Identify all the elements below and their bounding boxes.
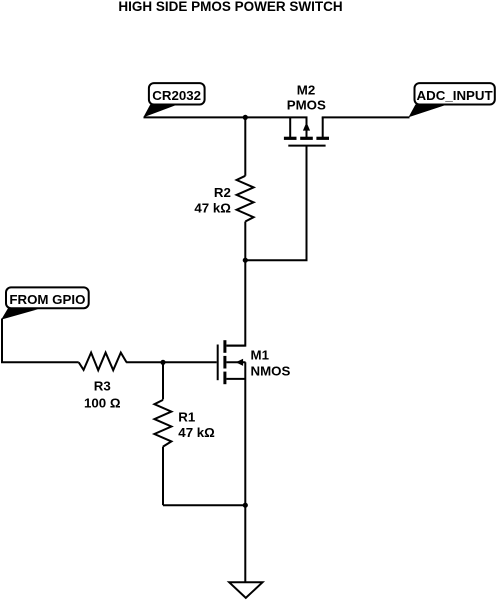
ground: [229, 582, 262, 598]
gate line: [288, 145, 325, 147]
drain line: [226, 345, 245, 347]
wire node B to M1 drain: [227, 260, 246, 345]
channel bars: [284, 137, 297, 140]
node D junction dot: [243, 503, 248, 508]
svg-text:R3: R3: [94, 378, 111, 393]
source line: [226, 378, 245, 380]
source/body vertical: [244, 362, 246, 505]
svg-text:47 kΩ: 47 kΩ: [194, 201, 231, 216]
svg-text:ADC_INPUT: ADC_INPUT: [417, 88, 493, 103]
svg-text:HIGH SIDE PMOS POWER SWITCH: HIGH SIDE PMOS POWER SWITCH: [118, 0, 342, 14]
body stub with arrow: [306, 117, 308, 138]
node A junction dot: [243, 115, 248, 120]
wire R3 to M1 gate: [126, 361, 217, 363]
wire R1 top lead: [162, 362, 164, 399]
svg-text:NMOS: NMOS: [251, 363, 291, 378]
wire R2 top lead: [244, 117, 246, 175]
channel bars: [223, 340, 226, 353]
net flag CR2032: [143, 83, 204, 117]
svg-text:M2: M2: [297, 83, 315, 98]
wire R2 bottom lead: [244, 222, 246, 261]
svg-text:PMOS: PMOS: [287, 98, 326, 113]
source stub: [289, 117, 291, 138]
wire M2 drain to ADC_INPUT: [322, 116, 410, 118]
resistor R1: [154, 362, 215, 505]
resistor R2: [194, 117, 253, 260]
wire M2 gate to node B: [245, 146, 306, 261]
wire R1 bottom to source node: [163, 504, 245, 506]
svg-text:47 kΩ: 47 kΩ: [178, 425, 215, 440]
net flag ADC_INPUT: [409, 83, 495, 117]
svg-text:M1: M1: [251, 347, 270, 362]
transistor M1 NMOS: [218, 340, 291, 505]
drain stub: [322, 117, 324, 138]
wire R1 bottom lead: [162, 447, 164, 506]
svg-text:R2: R2: [214, 185, 231, 200]
gate bar: [217, 345, 219, 381]
wire FROM GPIO down and right to R3: [2, 319, 79, 363]
transistor M2 PMOS: [284, 83, 329, 146]
wire net CR2032 to M2 source: [144, 116, 308, 118]
body line with arrow: [226, 361, 245, 363]
net flag FROM GPIO: [1, 287, 89, 319]
svg-text:R1: R1: [178, 409, 196, 424]
svg-text:FROM GPIO: FROM GPIO: [9, 292, 85, 307]
svg-text:100 Ω: 100 Ω: [84, 395, 121, 410]
svg-text:CR2032: CR2032: [152, 88, 201, 103]
wire to ground: [244, 505, 246, 582]
resistor R3: [79, 353, 127, 411]
node B junction dot: [243, 258, 248, 263]
node C junction dot: [160, 360, 165, 365]
